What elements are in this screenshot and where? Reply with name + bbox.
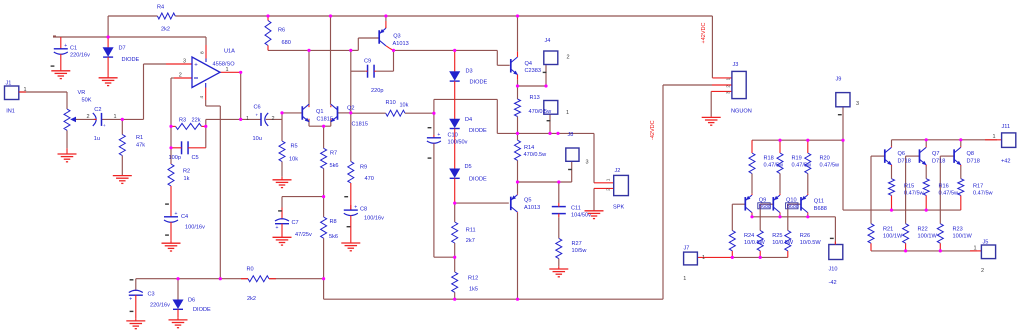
wire J9 net vertical — [842, 140, 844, 210]
wire Q3 base jog — [351, 49, 359, 51]
label Q2 — [347, 106, 368, 128]
svg-text:A1013: A1013 — [524, 205, 540, 211]
wire J2 ground leg — [593, 188, 595, 210]
svg-text:1: 1 — [683, 276, 686, 282]
label R8 — [329, 219, 338, 240]
wire op-amp pin3 input — [144, 63, 167, 65]
svg-text:R7: R7 — [330, 151, 337, 157]
diode D5 — [454, 131, 456, 169]
svg-text:2k2: 2k2 — [161, 27, 170, 33]
svg-text:5k6: 5k6 — [329, 234, 338, 240]
junction at (171,147.8) — [169, 146, 172, 149]
label R11 — [466, 227, 476, 244]
svg-text:2k2: 2k2 — [247, 296, 256, 302]
junction at (385.9,16) — [384, 14, 387, 17]
svg-text:R12: R12 — [468, 276, 478, 282]
label R14 — [524, 145, 548, 158]
svg-text:22k: 22k — [192, 118, 201, 124]
svg-text:3: 3 — [183, 58, 186, 64]
svg-text:100/16v: 100/16v — [185, 225, 205, 231]
wire -42V riser to J3 — [662, 85, 664, 299]
resistor R16 — [923, 179, 929, 196]
svg-text:Q6: Q6 — [898, 151, 905, 157]
svg-text:0.47/5w: 0.47/5w — [820, 163, 841, 169]
capacitor C5 — [171, 141, 206, 154]
label R22 — [918, 227, 938, 240]
svg-text:2: 2 — [87, 114, 90, 120]
svg-text:DIODE: DIODE — [469, 176, 487, 182]
label J5 — [981, 240, 988, 275]
label D3 — [466, 69, 488, 86]
resistor R5 — [281, 140, 283, 142]
wire J3 pin2 stub — [712, 84, 732, 86]
svg-text:J10: J10 — [829, 266, 838, 272]
svg-text:C7: C7 — [292, 220, 299, 226]
junction at (171,126.4) — [169, 125, 172, 128]
svg-text:D4: D4 — [465, 117, 472, 123]
resistor R14 — [515, 140, 521, 160]
wire R17 bottom lead — [960, 195, 962, 210]
svg-text:2: 2 — [272, 116, 275, 122]
wire R8 top lead — [323, 197, 325, 217]
svg-text:+: + — [103, 123, 106, 128]
svg-text:J2: J2 — [615, 168, 621, 174]
svg-text:NGUON: NGUON — [731, 108, 752, 114]
svg-text:A1013: A1013 — [393, 41, 409, 47]
svg-text:47/25v: 47/25v — [295, 232, 312, 238]
junction at (807.8,216.8) — [806, 215, 809, 218]
resistor R10 — [386, 110, 405, 116]
wire Q6 emitter to R15 — [891, 166, 893, 179]
svg-text:B688: B688 — [814, 206, 827, 212]
svg-text:100/1W: 100/1W — [883, 234, 903, 240]
label R10 — [386, 100, 409, 108]
svg-text:2: 2 — [567, 54, 570, 60]
junction at (940.3,250.9) — [939, 249, 942, 252]
svg-text:R20: R20 — [820, 156, 830, 162]
svg-text:0.47/5w: 0.47/5w — [939, 190, 960, 196]
label D7 — [119, 46, 140, 63]
wire R20 bottom to Q11 emitter — [807, 174, 809, 194]
svg-text:2k7: 2k7 — [466, 238, 475, 244]
wire J9 lead — [842, 107, 844, 140]
wire R26 bottom lead — [787, 251, 789, 258]
svg-text:8: 8 — [200, 51, 206, 54]
wire R8 bottom to R0 node — [323, 238, 325, 279]
junction at (268,16) — [266, 14, 269, 17]
wire R27 to ground — [558, 259, 560, 267]
svg-text:470: 470 — [365, 176, 374, 182]
svg-text:2: 2 — [179, 73, 182, 79]
resistor R18 — [751, 140, 753, 153]
wire D6 top lead — [177, 279, 179, 300]
resistor R7 — [321, 148, 327, 168]
label C1 — [70, 45, 90, 58]
junction at (108.1,37) — [107, 35, 110, 38]
resistor R3 — [171, 125, 176, 127]
resistor R0 — [241, 278, 248, 280]
resistor R8 — [321, 217, 327, 238]
svg-text:50K: 50K — [82, 98, 92, 104]
svg-text:C1815: C1815 — [352, 121, 368, 127]
svg-text:DIODE: DIODE — [469, 128, 487, 134]
wire R25 bottom lead — [759, 251, 761, 258]
svg-text:1k5: 1k5 — [469, 286, 478, 292]
label VR — [78, 90, 92, 104]
wire C6 to Q1 base node — [266, 118, 282, 120]
wire Q9 collector stub — [751, 214, 753, 217]
svg-text:R6: R6 — [278, 28, 285, 34]
capacitor C10 — [427, 127, 441, 159]
wire J3 pin1 stub — [712, 77, 732, 79]
svg-text:C2: C2 — [94, 107, 101, 113]
diode D7 — [107, 37, 109, 48]
svg-text:D6: D6 — [188, 298, 195, 304]
junction at (558,133.4) — [556, 132, 559, 135]
svg-text:1: 1 — [246, 116, 249, 122]
label Q3 — [393, 33, 409, 46]
wire R14 bottom to output node — [517, 160, 519, 182]
svg-text:D718: D718 — [898, 158, 911, 164]
junction at (807.8,140.2) — [806, 139, 809, 142]
label R23 — [953, 227, 973, 240]
junction at (517.5,86) — [516, 84, 519, 87]
capacitor C11 — [552, 203, 566, 217]
wire PNP emitter rail — [752, 139, 843, 141]
resistor R12 — [452, 272, 458, 292]
svg-text:B688: B688 — [759, 204, 771, 210]
junction at (926.2,139.8) — [925, 138, 928, 141]
junction at (517.5,16) — [516, 14, 519, 17]
wire R15 bottom lead — [891, 195, 893, 210]
wire J2 pin2 stub — [594, 187, 614, 189]
junction at (732.3,257.4) — [731, 256, 734, 259]
transistor Q3 — [378, 27, 393, 51]
junction at (330.5,16) — [329, 14, 332, 17]
svg-text:R22: R22 — [918, 227, 928, 233]
capacitor C6 — [256, 112, 269, 126]
svg-text:10k: 10k — [400, 103, 409, 109]
label Q11 — [814, 199, 827, 212]
wire J3 pin3 stub — [711, 90, 732, 92]
ground below C1 — [60, 67, 62, 71]
label C3 — [148, 292, 171, 309]
svg-text:220/16v: 220/16v — [150, 302, 170, 308]
wire Q11 base — [788, 203, 801, 205]
junction at (323.6,278.7) — [322, 277, 325, 280]
wire R1 bottom to ground — [121, 119, 123, 134]
svg-text:DIODE: DIODE — [193, 307, 211, 313]
svg-text:1: 1 — [226, 67, 229, 73]
wire J4 link to emitter node — [545, 65, 547, 86]
svg-text:R15: R15 — [904, 183, 914, 189]
wire C11 tap — [558, 182, 560, 203]
svg-text:R14: R14 — [524, 145, 534, 151]
label R17 — [973, 183, 994, 196]
wire Q11 collector stub — [807, 214, 809, 217]
ground below C4 — [170, 241, 172, 244]
capacitor C8 — [344, 196, 358, 241]
wire Q6 base to R21 — [871, 155, 885, 157]
connector J1 — [5, 86, 27, 100]
junction at (205.8,126.4) — [204, 125, 207, 128]
connector J11 — [1002, 133, 1016, 148]
label C11 — [571, 205, 591, 218]
wire VR bottom to ground — [66, 130, 68, 148]
connector J9 — [836, 93, 850, 116]
ground at J3 — [710, 116, 712, 117]
svg-text:C4: C4 — [181, 214, 188, 220]
junction at (350.8,112.9) — [349, 111, 352, 114]
svg-text:R16: R16 — [939, 183, 949, 189]
wire C9 left lead — [351, 70, 366, 72]
resistor R26 — [785, 231, 791, 251]
svg-text:R1: R1 — [136, 135, 143, 141]
label R18 — [764, 156, 785, 169]
svg-text:R2: R2 — [183, 169, 190, 175]
label U1A — [213, 49, 236, 68]
capacitor C9 — [366, 65, 376, 78]
svg-text:C8: C8 — [360, 207, 367, 213]
resistor R13 — [515, 99, 521, 117]
transistor Q7 — [920, 146, 928, 167]
ground below C7 — [281, 235, 283, 238]
wire Q10 collector stub — [779, 214, 781, 217]
label Q5 — [524, 197, 540, 211]
svg-text:470/0.5w: 470/0.5w — [524, 152, 548, 158]
label Q4 — [525, 61, 541, 74]
label J2 — [613, 168, 624, 211]
svg-text:J3: J3 — [733, 62, 739, 68]
svg-text:R18: R18 — [764, 156, 774, 162]
wire R5 bottom to ground — [281, 162, 283, 177]
ground below R1 — [121, 175, 123, 177]
wire R10 to C10 node — [405, 112, 434, 114]
junction at (752,216.8) — [750, 215, 753, 218]
wire J3 pin3 to ground — [710, 91, 712, 116]
svg-text:Q3: Q3 — [393, 33, 400, 39]
svg-text:D5: D5 — [465, 164, 472, 170]
resistor R4 — [157, 13, 175, 19]
wire Q9 base — [732, 203, 745, 205]
wire Q7 emitter to R16 — [925, 166, 927, 179]
svg-text:2: 2 — [981, 268, 984, 274]
transistor Q6 — [885, 146, 893, 167]
junction at (891.5,210.1) — [890, 209, 893, 212]
wire op-amp pin2 input — [171, 77, 174, 79]
label R15 — [904, 183, 925, 196]
transistor Q10 — [773, 194, 780, 214]
label D4 — [465, 117, 487, 134]
wire C2 to R1 and pin3 node — [102, 118, 144, 120]
svg-text:R0: R0 — [247, 267, 254, 273]
svg-text:D3: D3 — [466, 69, 473, 75]
junction at (350.8,50.4) — [349, 49, 352, 52]
svg-text:DIODE: DIODE — [122, 57, 140, 63]
svg-text:0.47/5w: 0.47/5w — [973, 190, 994, 196]
junction at (433.9,113.2) — [432, 112, 435, 115]
junction at (323.6,126.2) — [322, 125, 325, 128]
resistor R20 — [807, 140, 809, 153]
junction at (517.5,133.4) — [516, 132, 519, 135]
svg-text:R4: R4 — [157, 5, 164, 11]
junction at (240.7,119.4) — [239, 118, 242, 121]
label J3 — [731, 62, 752, 115]
svg-text:R9: R9 — [360, 165, 367, 171]
resistor R17 — [958, 179, 964, 196]
svg-text:Q11: Q11 — [814, 199, 824, 205]
wire Q5 emitter vertical — [517, 182, 519, 194]
label Q9 — [758, 198, 771, 210]
ground below C3 — [135, 318, 137, 321]
wire Q4 emitter to R13 — [517, 80, 519, 99]
wire output stage bottom rail — [871, 250, 977, 252]
svg-text:470/0.5w: 470/0.5w — [529, 109, 553, 115]
pin 1 of J7 — [683, 255, 705, 282]
svg-text:R25: R25 — [772, 233, 782, 239]
junction at (780,216.8) — [778, 215, 781, 218]
wire +42 rail right board — [892, 139, 998, 141]
wire R21 bottom lead — [870, 243, 872, 251]
label C5 — [169, 155, 199, 161]
wire Q8 collector stub — [960, 140, 962, 146]
capacitor C7 — [275, 208, 289, 235]
svg-text:+42VDC: +42VDC — [701, 23, 707, 44]
svg-text:100/16v: 100/16v — [364, 216, 384, 222]
wire J2 pin1 stub — [594, 182, 614, 184]
connector J8 pin3 — [566, 148, 579, 170]
svg-text:10/0.5W: 10/0.5W — [800, 240, 822, 246]
wire driver base rail — [732, 256, 788, 258]
junction at (454.7,203.1) — [453, 202, 456, 205]
svg-text:C6: C6 — [254, 105, 261, 111]
junction at (517.5,182) — [516, 180, 519, 183]
svg-text:Q2: Q2 — [347, 106, 354, 112]
svg-text:J8: J8 — [568, 132, 574, 138]
svg-text:+: + — [129, 297, 132, 303]
svg-text:Q1: Q1 — [316, 109, 323, 115]
junction at (309,50.4) — [307, 49, 310, 52]
wire C9 right lead — [376, 70, 394, 72]
wire R9 top lead — [350, 113, 352, 162]
wire R6 rail segment A — [268, 49, 351, 51]
wire J4 pin1 lead — [549, 114, 551, 133]
wire R13 bottom to R14 top — [517, 117, 519, 141]
svg-text:R17: R17 — [973, 183, 983, 189]
wire R18 bottom to Q9 emitter — [751, 174, 753, 194]
ground below D7 — [107, 75, 109, 77]
wire VR wiper to C2 — [74, 118, 97, 120]
transistor Q5 — [510, 194, 517, 213]
wire bootstrap to R13/R14 node — [434, 98, 497, 100]
resistor R27 — [556, 238, 562, 258]
svg-text:B688: B688 — [787, 204, 799, 210]
transistor Q2 — [329, 104, 337, 123]
svg-text:+: + — [276, 225, 279, 231]
svg-text:R27: R27 — [572, 241, 582, 247]
svg-text:10u: 10u — [253, 136, 262, 142]
label R20 — [820, 156, 841, 169]
wire +42V top rail right segment — [175, 15, 712, 17]
label D6 — [188, 298, 211, 314]
wire feedback node to C6 — [241, 118, 261, 120]
wire Q6 collector stub — [891, 140, 893, 146]
label D5 — [465, 164, 487, 182]
connector J2 — [614, 175, 629, 195]
capacitor C2 — [93, 113, 106, 128]
wire op-amp output to feedback node — [220, 71, 241, 73]
wire C11 to R27 — [558, 217, 560, 238]
svg-text:1: 1 — [566, 110, 569, 116]
wire PNP collector rail to J10 — [752, 216, 835, 218]
connector J7 — [684, 252, 698, 265]
wire Q8 emitter to R17 — [960, 166, 962, 179]
wire R16 bottom lead — [925, 195, 927, 210]
svg-text:R3: R3 — [179, 118, 186, 124]
ground at J2 — [593, 209, 595, 212]
transistor Q11 — [800, 194, 808, 214]
svg-text:4: 4 — [199, 96, 205, 99]
junction at (960.8,139.8) — [959, 138, 962, 141]
label Q10 — [786, 198, 799, 210]
wire J10 lead — [834, 244, 836, 246]
label R7 — [330, 151, 339, 169]
label C9 — [364, 58, 383, 94]
label C10 — [448, 132, 468, 145]
resistor R23 — [937, 224, 943, 244]
svg-text:D7: D7 — [119, 46, 126, 52]
svg-text:Q5: Q5 — [524, 197, 531, 203]
wire op-amp pin8 vertical — [205, 37, 207, 45]
ground below D6 — [177, 317, 179, 320]
svg-text:-42VDC: -42VDC — [650, 120, 656, 140]
svg-text:SPK: SPK — [613, 204, 624, 210]
wire top-left corner drop to C1/D7 node — [107, 16, 109, 37]
label R3 — [179, 118, 201, 124]
label R2 — [183, 169, 190, 182]
label J1 — [6, 80, 15, 114]
label R5 — [289, 144, 298, 163]
wire Q7 base to R22 — [906, 155, 920, 157]
wire R24 bottom lead — [731, 251, 733, 258]
label Q6 — [898, 151, 911, 164]
wire diode chain node to Q5 base — [455, 202, 509, 204]
resistor R2 — [170, 163, 172, 166]
svg-text:-42: -42 — [829, 280, 837, 286]
wire J8 pin3 lead — [571, 161, 573, 182]
svg-text:100/1W: 100/1W — [918, 234, 938, 240]
wire bottom -42V rail — [324, 298, 663, 300]
svg-text:4558/SO: 4558/SO — [213, 62, 236, 68]
wire Q2 base node vertical — [338, 112, 351, 114]
svg-text:J7: J7 — [684, 245, 690, 251]
label R13 — [529, 95, 553, 115]
svg-text:+: + — [256, 112, 259, 117]
label R16 — [939, 183, 960, 196]
svg-text:J11: J11 — [1002, 124, 1011, 130]
junction at (780,140.2) — [778, 139, 781, 142]
svg-text:R8: R8 — [330, 219, 337, 225]
svg-text:R5: R5 — [291, 144, 298, 150]
connector J5 — [981, 245, 995, 259]
wire J3 pin2 feed — [663, 84, 712, 86]
wire R0 row right — [269, 278, 324, 280]
svg-text:1: 1 — [702, 255, 705, 261]
label R27 — [572, 241, 588, 254]
wire drive node to J2 feed — [518, 132, 595, 134]
svg-text:C9: C9 — [364, 58, 371, 64]
svg-text:R13: R13 — [530, 95, 540, 101]
